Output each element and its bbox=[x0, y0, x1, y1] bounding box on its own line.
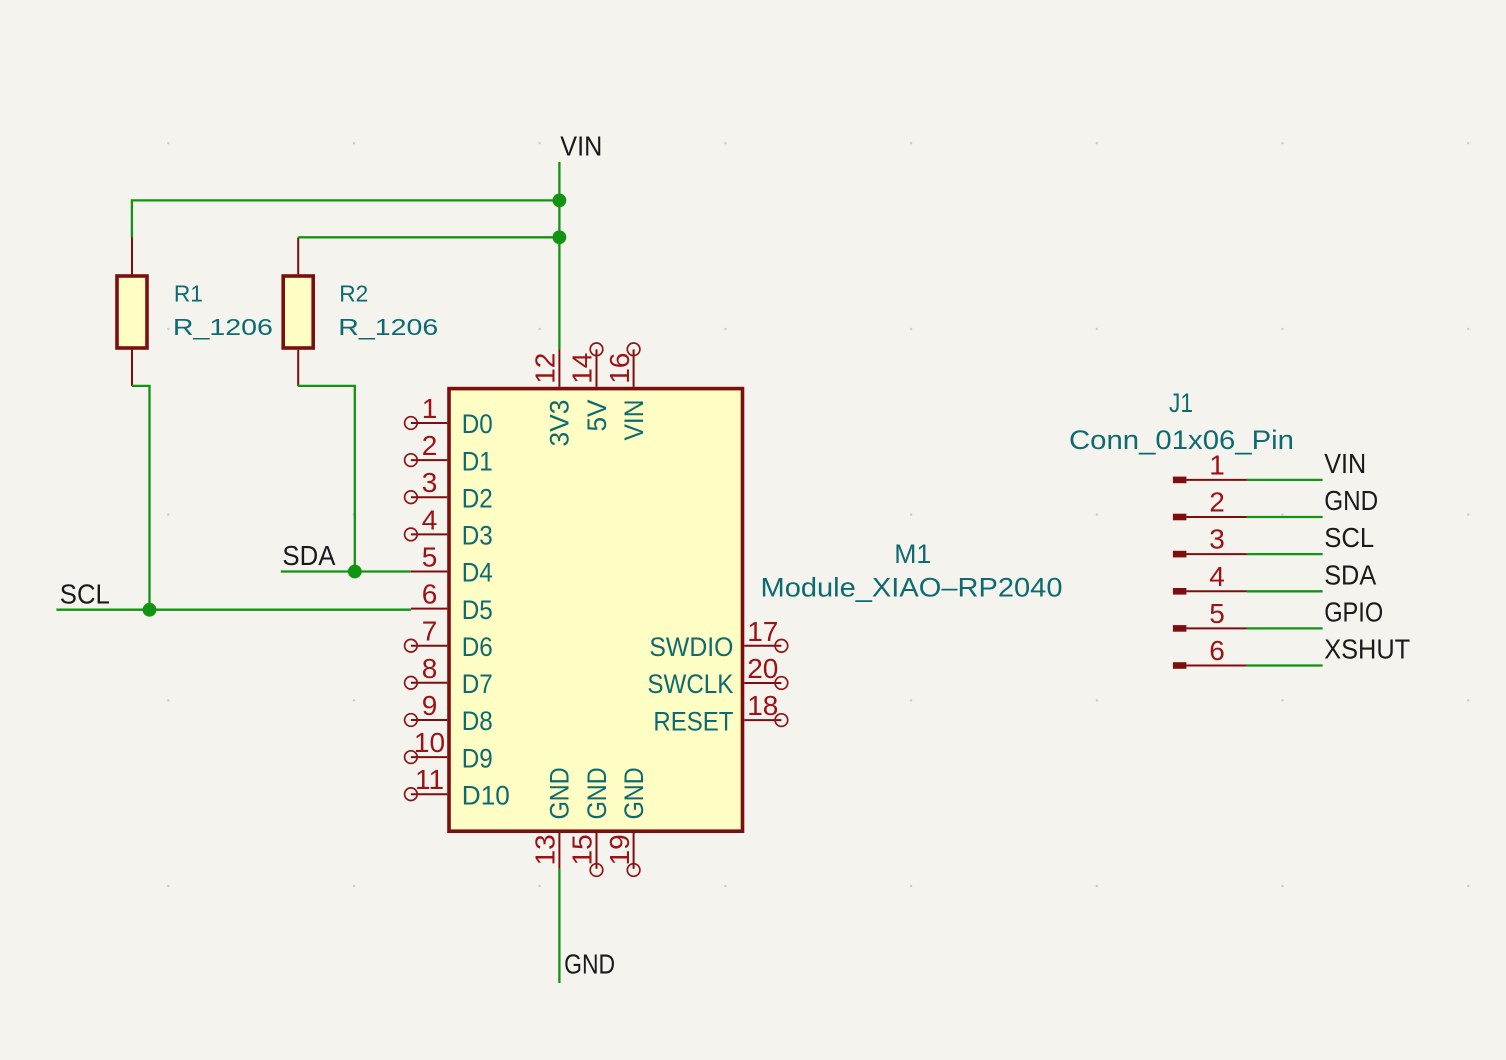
svg-text:XSHUT: XSHUT bbox=[1324, 634, 1410, 665]
svg-text:3V3: 3V3 bbox=[545, 400, 575, 447]
svg-text:3: 3 bbox=[1209, 524, 1225, 555]
svg-text:D9: D9 bbox=[462, 743, 493, 773]
svg-text:VIN: VIN bbox=[560, 131, 602, 162]
svg-text:7: 7 bbox=[422, 616, 438, 647]
svg-text:GND: GND bbox=[545, 767, 575, 819]
svg-text:13: 13 bbox=[530, 834, 561, 865]
svg-text:2: 2 bbox=[1209, 487, 1225, 518]
svg-text:11: 11 bbox=[415, 764, 444, 795]
svg-text:4: 4 bbox=[422, 504, 438, 535]
svg-text:9: 9 bbox=[422, 690, 438, 721]
svg-text:R1: R1 bbox=[174, 281, 203, 307]
svg-text:12: 12 bbox=[530, 353, 561, 384]
svg-text:D6: D6 bbox=[462, 632, 493, 662]
svg-text:R_1206: R_1206 bbox=[338, 314, 438, 340]
svg-text:RESET: RESET bbox=[653, 706, 733, 736]
svg-text:D10: D10 bbox=[462, 780, 510, 810]
svg-text:SDA: SDA bbox=[1324, 559, 1376, 590]
svg-text:3: 3 bbox=[422, 467, 438, 498]
svg-text:5: 5 bbox=[1209, 598, 1225, 629]
svg-text:Module_XIAO–RP2040: Module_XIAO–RP2040 bbox=[761, 573, 1063, 603]
svg-text:GPIO: GPIO bbox=[1324, 596, 1383, 627]
svg-text:1: 1 bbox=[422, 393, 438, 424]
svg-text:D5: D5 bbox=[462, 595, 493, 625]
svg-text:5: 5 bbox=[422, 542, 438, 573]
svg-text:5V: 5V bbox=[582, 400, 612, 432]
svg-text:GND: GND bbox=[619, 767, 649, 819]
svg-text:6: 6 bbox=[422, 579, 438, 610]
svg-text:14: 14 bbox=[567, 353, 598, 384]
svg-text:18: 18 bbox=[747, 690, 778, 721]
svg-text:D8: D8 bbox=[462, 706, 493, 736]
svg-text:15: 15 bbox=[567, 834, 598, 865]
svg-text:20: 20 bbox=[747, 653, 778, 684]
svg-text:Conn_01x06_Pin: Conn_01x06_Pin bbox=[1069, 425, 1294, 455]
svg-text:16: 16 bbox=[604, 353, 635, 384]
svg-text:SWDIO: SWDIO bbox=[649, 632, 733, 662]
svg-text:J1: J1 bbox=[1169, 388, 1193, 418]
svg-text:D1: D1 bbox=[462, 446, 493, 476]
svg-text:R2: R2 bbox=[339, 281, 368, 307]
svg-text:D0: D0 bbox=[462, 409, 493, 439]
svg-text:D7: D7 bbox=[462, 669, 493, 699]
svg-text:SCL: SCL bbox=[60, 578, 110, 609]
svg-text:SCL: SCL bbox=[1324, 522, 1374, 553]
svg-text:VIN: VIN bbox=[1324, 448, 1366, 479]
svg-text:D3: D3 bbox=[462, 521, 493, 551]
svg-text:M1: M1 bbox=[894, 539, 931, 569]
svg-text:GND: GND bbox=[564, 949, 615, 980]
svg-text:GND: GND bbox=[1324, 485, 1378, 516]
svg-text:17: 17 bbox=[747, 616, 778, 647]
svg-text:8: 8 bbox=[422, 653, 438, 684]
svg-text:SWCLK: SWCLK bbox=[647, 669, 733, 699]
svg-text:19: 19 bbox=[604, 834, 635, 865]
svg-text:10: 10 bbox=[414, 727, 445, 758]
svg-text:D2: D2 bbox=[462, 483, 493, 513]
svg-text:D4: D4 bbox=[462, 558, 493, 588]
svg-text:VIN: VIN bbox=[619, 400, 649, 441]
svg-text:2: 2 bbox=[422, 430, 438, 461]
svg-text:R_1206: R_1206 bbox=[173, 314, 273, 340]
svg-text:6: 6 bbox=[1209, 635, 1225, 666]
svg-text:4: 4 bbox=[1209, 561, 1225, 592]
svg-text:SDA: SDA bbox=[282, 540, 335, 571]
svg-text:GND: GND bbox=[582, 767, 612, 819]
